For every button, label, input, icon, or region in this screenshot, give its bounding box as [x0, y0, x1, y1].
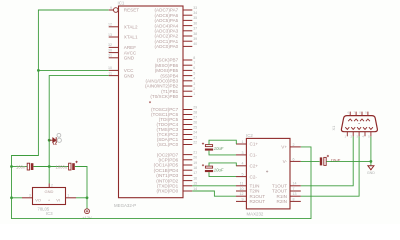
IC1 pin 3 (AIN0/INT2)PB2 (stub, number, name) [145, 82, 195, 89]
svg-text:GND: GND [367, 171, 375, 175]
svg-text:35: 35 [193, 16, 197, 20]
IC2 pin 7 T2OUT (stub, number, name) [272, 187, 301, 194]
X1 pin 1 (bottom stub, arc, number) [345, 127, 350, 138]
IC2 pin 14 T1OUT (stub, number, name) [272, 182, 301, 189]
svg-text:31: 31 [108, 54, 112, 58]
svg-text:MEGA32-P: MEGA32-P [114, 203, 136, 208]
IC2 pin 6 V- (stub, number, name) [283, 157, 301, 164]
IC1 pin 24 (TCK)PC2 (stub, number, name) [157, 130, 197, 137]
X1 center mark [358, 122, 360, 124]
connector X1 DB9 shell [341, 116, 377, 132]
svg-text:4: 4 [242, 162, 244, 166]
diode D1 name label (illegible glyphs) [57, 133, 61, 142]
svg-text:12: 12 [108, 23, 112, 27]
svg-text:22: 22 [193, 140, 197, 144]
svg-text:GND: GND [124, 56, 135, 61]
IC1 pin 28 (TOSC1)PC6 (stub, number, name) [151, 110, 197, 117]
svg-text:GND: GND [45, 189, 54, 194]
IC1 pin 34 (ADC6)PA6 (stub, number, name) [155, 11, 198, 18]
capacitor C4 10uF (MAX232 charge pump) [202, 164, 213, 172]
junction VI / +12V at (87,197.8) [86, 196, 89, 199]
connector X1 name label [331, 125, 336, 131]
IC2 pin 2 V+ (stub, number, name) [281, 143, 301, 150]
svg-text:36: 36 [193, 21, 197, 25]
IC1 pin 20 (ICP)PD6 (stub, number, name) [159, 156, 198, 163]
wire cap line C2 to VI corner, down to VI wire [75, 167, 87, 198]
IC1 pin 27 (TDI)PC5 (stub, number, name) [159, 115, 197, 122]
IC2 pin 3 C1- (stub, number, name) [236, 151, 257, 158]
svg-text:3: 3 [29, 193, 31, 197]
IC1 pin 25 (TMS)PC3 (stub, number, name) [156, 125, 197, 132]
IC1 pin 1 (T0/XCK)PB0 (stub, number, name) [150, 92, 195, 99]
IC1 pin 22 (SCL)PC0 (stub, number, name) [157, 140, 197, 147]
svg-text:XTAL2: XTAL2 [124, 25, 138, 30]
svg-text:20: 20 [193, 156, 197, 160]
IC2 pin 9 R2OUT (stub, number, name) [236, 197, 265, 204]
IC1 pin 10 VCC (stub, number, name) [108, 66, 134, 73]
IC U1: microcontroller IC1 MEGA32-P body [119, 6, 184, 198]
IC3 pin 3 stub (VO, left) [22, 193, 33, 197]
IC1 pin 7 (MISO)PB6 (stub, number, name) [155, 61, 195, 68]
X1 pin 2 (bottom stub, arc, number) [350, 127, 355, 138]
voltage regulator IC3 78L05 body [33, 188, 66, 205]
svg-text:10uF: 10uF [214, 168, 224, 173]
svg-text:1: 1 [67, 193, 69, 197]
svg-text:37: 37 [193, 27, 197, 31]
svg-text:10: 10 [108, 66, 112, 70]
IC1 pin 26 (TDO)PC4 (stub, number, name) [156, 120, 197, 127]
svg-text:9: 9 [110, 6, 112, 10]
svg-text:10uF: 10uF [214, 146, 224, 151]
svg-text:2: 2 [193, 87, 195, 91]
wire GND pin11 left and down rail x49.2 to IC3 GND pin [49, 76, 108, 184]
svg-text:15: 15 [193, 182, 197, 186]
wire C4 bottom to IC2 [209, 172, 236, 177]
svg-text:28: 28 [193, 110, 197, 114]
svg-text:2: 2 [293, 143, 295, 147]
svg-text:GND: GND [124, 73, 135, 78]
svg-text:18: 18 [193, 166, 197, 170]
svg-text:10: 10 [240, 187, 244, 191]
svg-text:8: 8 [193, 56, 195, 60]
svg-text:9: 9 [242, 197, 244, 201]
wire +5V rail from VCC junction down to corner and left [12, 70, 39, 166]
svg-text:R2OUT: R2OUT [250, 199, 266, 204]
wire R1IN to X1 pin 3 [301, 136, 359, 196]
wire C4 top loop to IC2 [209, 163, 236, 166]
junction GND rail / diode at (49.2,140.2) [48, 139, 51, 142]
svg-text:3: 3 [242, 151, 244, 155]
svg-text:26: 26 [193, 120, 197, 124]
IC1 value label MEGA32-P [114, 203, 136, 208]
svg-text:11: 11 [240, 182, 244, 186]
IC1 pin 17 (INT1)PD3 (stub, number, name) [156, 171, 197, 178]
IC1 pin 6 (MOSI)PB5 (stub, number, name) [155, 66, 195, 73]
IC1 pin 33 (ADC7)PA7 (stub, number, name) [155, 6, 198, 13]
IC2 pin 4 C2+ (stub, number, name) [236, 162, 258, 169]
IC1 pin 16 (INT0)PD2 (stub, number, name) [156, 176, 197, 183]
IC2 pin 8 R2IN (stub, number, name) [277, 197, 301, 204]
svg-text:14: 14 [193, 187, 197, 191]
svg-text:6: 6 [293, 157, 295, 161]
svg-text:VI: VI [56, 198, 60, 203]
svg-text:23: 23 [193, 135, 197, 139]
svg-text:V+: V+ [281, 145, 287, 150]
IC1 pin 15 (TXD)PD1 (stub, number, name) [157, 182, 197, 189]
IC3 pin 1 stub (VI, right) [66, 193, 77, 197]
ground symbol GND [368, 161, 374, 169]
wire C3 top loop to IC2 [209, 140, 236, 144]
wire C5 to GND junction [326, 160, 371, 162]
IC3 value label IC3 [46, 211, 53, 216]
X1 pin 8 (top stub, arc, number) [359, 110, 364, 121]
diode D1 on GND rail at (53,140) [49, 137, 56, 145]
svg-text:IC3: IC3 [46, 211, 53, 216]
IC2 pin 5 C2- (stub, number, name) [236, 173, 257, 180]
svg-text:1: 1 [242, 140, 244, 144]
IC1 pin 37 (ADC3)PA3 (stub, number, name) [155, 27, 198, 34]
IC2 pin 10 T2IN (stub, number, name) [236, 187, 259, 194]
wire VI input from junction [76, 197, 87, 199]
svg-text:V-: V- [283, 159, 288, 164]
IC2 pin 12 R1OUT (stub, number, name) [236, 192, 265, 199]
IC1 pin 11 GND (stub, number, name) [108, 71, 134, 78]
svg-text:33: 33 [193, 6, 197, 10]
svg-text:(RXD)PD0: (RXD)PD0 [156, 189, 178, 194]
svg-text:39: 39 [193, 37, 197, 41]
IC U2: RS232 driver IC2 MAX232 body [246, 138, 290, 209]
IC1 pin 36 (ADC4)PA4 (stub, number, name) [155, 21, 198, 28]
svg-text:IC1: IC1 [118, 0, 125, 5]
wire RESET net: pin9 left, down rail x38.4, to +5V corner [38, 10, 108, 70]
svg-text:27: 27 [193, 115, 197, 119]
svg-text:IC2: IC2 [246, 133, 253, 138]
svg-text:19: 19 [193, 161, 197, 165]
IC1 pin 18 (OC1B)PD4 (stub, number, name) [154, 166, 198, 173]
svg-text:+12V: +12V [82, 215, 92, 220]
svg-text:(SCL)PC0: (SCL)PC0 [157, 142, 178, 147]
capacitor C3 value 10uF [214, 146, 224, 151]
svg-text:2: 2 [51, 183, 53, 187]
IC1 pin 19 (OC1A)PD5 (stub, number, name) [154, 161, 198, 168]
capacitor C1 value 100n [16, 165, 26, 170]
capacitor C2 1000u plates [69, 161, 78, 170]
X1 pin 5 (bottom stub, arc, number) [368, 127, 373, 138]
wire VO output to +5V junction [12, 167, 23, 198]
IC2 pin 1 C1+ (stub, number, name) [236, 140, 258, 147]
stray mark (cursor artifact) at (150,102.5) [149, 102, 151, 104]
wire T1OUT to X1 pin 2 [301, 136, 353, 186]
svg-text:29: 29 [193, 105, 197, 109]
svg-text:11: 11 [108, 71, 112, 75]
wire +5V bottom rail to MAX232 V+ [12, 147, 312, 219]
IC3 pin 2 stub (GND, top) [49, 183, 53, 187]
wire V- to capacitor C5 [301, 160, 320, 162]
svg-text:7: 7 [193, 61, 195, 65]
IC2 name label [246, 133, 253, 138]
svg-text:4: 4 [193, 77, 195, 81]
X1 pin 7 (top stub, arc, number) [353, 110, 358, 121]
IC2 pin 13 R1IN (stub, number, name) [277, 192, 301, 199]
svg-text:25: 25 [193, 125, 197, 129]
capacitor C5 10uF plates [320, 155, 329, 166]
IC1 pin 13 XTAL1 (stub, number, name) [108, 33, 138, 40]
IC1 pin 21 (OC2)PD7 (stub, number, name) [157, 150, 197, 157]
svg-text:X1: X1 [331, 125, 336, 131]
svg-text:5: 5 [242, 173, 244, 177]
supply +12V label [82, 215, 92, 220]
capacitor C2 value 1000u [56, 165, 68, 170]
svg-text:C1+: C1+ [250, 142, 259, 147]
IC3 internal pin names GND / VO + VI [35, 189, 60, 202]
IC1 pin 40 (ADC0)PA0 (stub, number, name) [155, 42, 198, 49]
IC1 pin 39 (ADC1)PA1 (stub, number, name) [155, 37, 198, 44]
junction +5V / VO / bottom rail at (11.5,197.8) [10, 196, 13, 199]
capacitor C5 value 10uF [331, 158, 341, 163]
X1 pin 9 (top stub, arc, number) [365, 110, 370, 121]
wire VCC pin10 to rail [38, 69, 108, 71]
wire RXD PD0 to R1OUT (stepped) [192, 191, 236, 196]
IC1 pin 14 (RXD)PD0 (stub, number, name) [156, 187, 197, 194]
X1 pin 3 (bottom stub, arc, number) [356, 127, 361, 138]
svg-text:R2IN: R2IN [277, 199, 287, 204]
IC1 pin 29 (TOSC2)PC7 (stub, number, name) [151, 105, 197, 112]
IC2 value label MAX232 [247, 212, 264, 217]
svg-text:(ADC0)PA0: (ADC0)PA0 [155, 44, 179, 49]
IC2 center mark [266, 170, 268, 172]
svg-text:XTAL1: XTAL1 [124, 35, 138, 40]
svg-text:C2+: C2+ [250, 164, 259, 169]
svg-text:13: 13 [108, 33, 112, 37]
capacitor C3 10uF (MAX232 charge pump) [202, 143, 213, 151]
svg-text:34: 34 [193, 11, 197, 15]
IC1 pin 2 (T1)PB1 (stub, number, name) [161, 87, 195, 94]
svg-text:1000u: 1000u [56, 165, 68, 170]
svg-text:(T0/XCK)PB0: (T0/XCK)PB0 [150, 94, 178, 99]
junction +5V / cap line at (11.5,166.5) [10, 165, 13, 168]
IC1 name label [118, 0, 125, 5]
IC1 pin 4 (AIN1/OC0)PB3 (stub, number, name) [146, 77, 196, 84]
svg-text:14: 14 [293, 182, 297, 186]
ground GND label [367, 171, 375, 175]
svg-text:17: 17 [193, 171, 197, 175]
svg-text:32: 32 [108, 43, 112, 47]
svg-text:30: 30 [108, 48, 112, 52]
svg-text:24: 24 [193, 130, 197, 134]
IC1 pin 9 RESET (stub, number, name) [109, 6, 140, 13]
supply symbol +12V [85, 198, 90, 214]
IC1 pin 32 AREF (stub, number, name) [108, 43, 136, 50]
wire C3 bottom to IC2 [209, 151, 236, 155]
svg-text:3: 3 [193, 82, 195, 86]
svg-text:1: 1 [193, 92, 195, 96]
IC1 pin 23 (SDA)PC1 (stub, number, name) [157, 135, 197, 142]
svg-text:12: 12 [240, 192, 244, 196]
svg-text:38: 38 [193, 32, 197, 36]
svg-text:MAX232: MAX232 [247, 212, 264, 217]
junction RESET/VCC at (38.4,70.4) [37, 69, 40, 72]
capacitor C4 value 10uF [214, 168, 224, 173]
svg-text:C1-: C1- [250, 153, 258, 158]
IC1 pin 12 XTAL2 (stub, number, name) [108, 23, 138, 30]
IC1 pin 30 AVCC (stub, number, name) [108, 48, 137, 55]
svg-text:VO: VO [35, 198, 41, 203]
wire cap line C1 to C2 [33, 166, 68, 168]
svg-text:21: 21 [193, 150, 197, 154]
capacitor C1 100n plates [27, 163, 33, 170]
svg-text:40: 40 [193, 42, 197, 46]
IC1 pin 31 GND (stub, number, name) [108, 54, 135, 61]
svg-text:5: 5 [193, 71, 195, 75]
wire GND junction up to X1 pin 5 [370, 136, 372, 161]
svg-text:RESET: RESET [124, 8, 140, 13]
svg-text:16: 16 [193, 176, 197, 180]
svg-text:13: 13 [293, 192, 297, 196]
junction GND rail / cap line at (49.2,166.5) [48, 165, 51, 168]
IC1 pin 5 (SS)PB4 (stub, number, name) [160, 71, 195, 78]
wire TXD PD1 to T1IN [192, 185, 236, 187]
svg-text:8: 8 [293, 197, 295, 201]
X1 pin 4 (bottom stub, arc, number) [362, 127, 367, 138]
svg-text:10uF: 10uF [331, 158, 341, 163]
IC1 pin 8 (SCK)PB7 (stub, number, name) [157, 56, 195, 63]
IC1 pin 35 (ADC5)PA5 (stub, number, name) [155, 16, 198, 23]
svg-text:C2-: C2- [250, 174, 258, 179]
junction GND net at (370.9,161.4) [370, 160, 373, 163]
svg-text:100n: 100n [16, 165, 26, 170]
X1 pin 6 (top stub, arc, number) [347, 110, 352, 121]
IC1 pin 38 (ADC2)PA2 (stub, number, name) [155, 32, 198, 39]
wire cap line from +5V rail to C1 [12, 166, 28, 168]
svg-text:7: 7 [293, 187, 295, 191]
IC2 pin 11 T1IN (stub, number, name) [236, 182, 259, 189]
svg-text:6: 6 [193, 66, 195, 70]
IC3 name label 78L05 [38, 206, 50, 211]
